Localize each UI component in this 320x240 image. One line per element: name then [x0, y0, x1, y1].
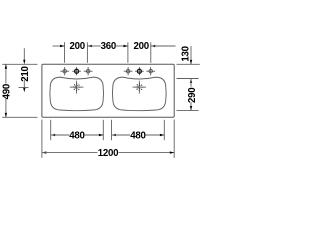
extension line top tick 1 [64, 42, 66, 63]
svg-text:210: 210 [20, 66, 31, 81]
svg-text:290: 290 [187, 88, 198, 103]
extension line 480-1 left [50, 120, 52, 140]
dimension 480 right: left segment [112, 134, 131, 136]
extension line bottom basin right edge [173, 120, 175, 158]
svg-text:130: 130 [181, 46, 192, 61]
dimension 490: upper segment [5, 64, 7, 83]
dimension 130: down arrowhead [190, 60, 192, 64]
right bowl [113, 77, 167, 111]
svg-text:480: 480 [130, 130, 145, 141]
dimension 200 right: arrowhead [151, 45, 155, 47]
extension line top tick 4 [150, 42, 152, 63]
extension line top tick 3 [127, 42, 129, 63]
extension line right rear edge [177, 63, 200, 65]
dimension 360: right segment [115, 45, 128, 47]
extension line 480-1 right [102, 120, 104, 140]
svg-text:360: 360 [101, 41, 116, 52]
dimension 210: down arrowhead below drain tick [23, 88, 25, 92]
dimension 360: left segment [87, 45, 101, 47]
dimension 200 right: outside arrow tail [151, 45, 176, 47]
dimension 210: lower segment [23, 80, 25, 88]
dimension 130: line above [190, 46, 192, 64]
dimension 210: upper tail above rear edge [23, 48, 25, 60]
dimension 360: left arrowhead [87, 45, 91, 47]
dimension 290: down arrowhead [190, 106, 192, 110]
dimension 480 right: left arrowhead [112, 134, 116, 136]
tap hole left bowl center [72, 67, 81, 75]
extension line 480-2 left [111, 120, 113, 140]
tap hole right bowl center [135, 67, 144, 75]
extension line left top (basin rear edge) [2, 63, 37, 65]
svg-text:1200: 1200 [98, 148, 119, 159]
drain hole left bowl [70, 81, 84, 94]
dimension 490: lower segment [5, 98, 7, 117]
dimension 490: up arrowhead [5, 64, 7, 68]
svg-text:200: 200 [133, 41, 148, 52]
extension line bottom basin left edge [41, 120, 43, 158]
tap hole right bowl outer-right [146, 67, 155, 75]
left bowl [50, 77, 104, 111]
tap hole right bowl outer-left [124, 67, 133, 75]
extension line 480-2 right [163, 120, 165, 140]
dimension 1200: right segment [119, 152, 175, 154]
extension tick for 210 at drain level [19, 87, 29, 89]
extension line right bowl bottom [177, 109, 199, 111]
tap hole left bowl outer-left [60, 67, 69, 75]
dimension 490: down arrowhead [5, 113, 7, 117]
dimension 480 left: right arrowhead [99, 134, 103, 136]
dimension 1200: left segment [42, 152, 98, 154]
svg-text:490: 490 [1, 84, 12, 99]
extension line left bottom (basin front edge) [2, 116, 37, 118]
basin outline [42, 64, 174, 117]
tap hole left bowl outer-right [84, 67, 93, 75]
svg-text:200: 200 [69, 41, 84, 52]
dimension 480 right: right segment [146, 134, 165, 136]
dimension 480 right: right arrowhead [160, 134, 164, 136]
svg-text:480: 480 [69, 130, 84, 141]
dimension 210: down arrowhead at rear edge [23, 60, 25, 64]
dimension 480 left: right segment [85, 134, 104, 136]
dimension 200 left: outside arrow tail [53, 45, 65, 47]
dimension 480 left: left segment [51, 134, 70, 136]
dimension 200 left: arrowhead [60, 45, 64, 47]
dimension 1200: right arrowhead [170, 151, 174, 153]
dimension 1200: left arrowhead [42, 151, 46, 153]
dimension 360: right arrowhead [124, 45, 128, 47]
extension line top tick 2 [86, 42, 88, 63]
dimension 290: up arrowhead [190, 79, 192, 83]
dimension 290: upper segment [190, 79, 192, 87]
drain hole right bowl [133, 81, 147, 94]
extension line right bowl top [177, 78, 199, 80]
dimension 290: lower segment [190, 102, 192, 110]
dimension 480 left: left arrowhead [51, 134, 55, 136]
